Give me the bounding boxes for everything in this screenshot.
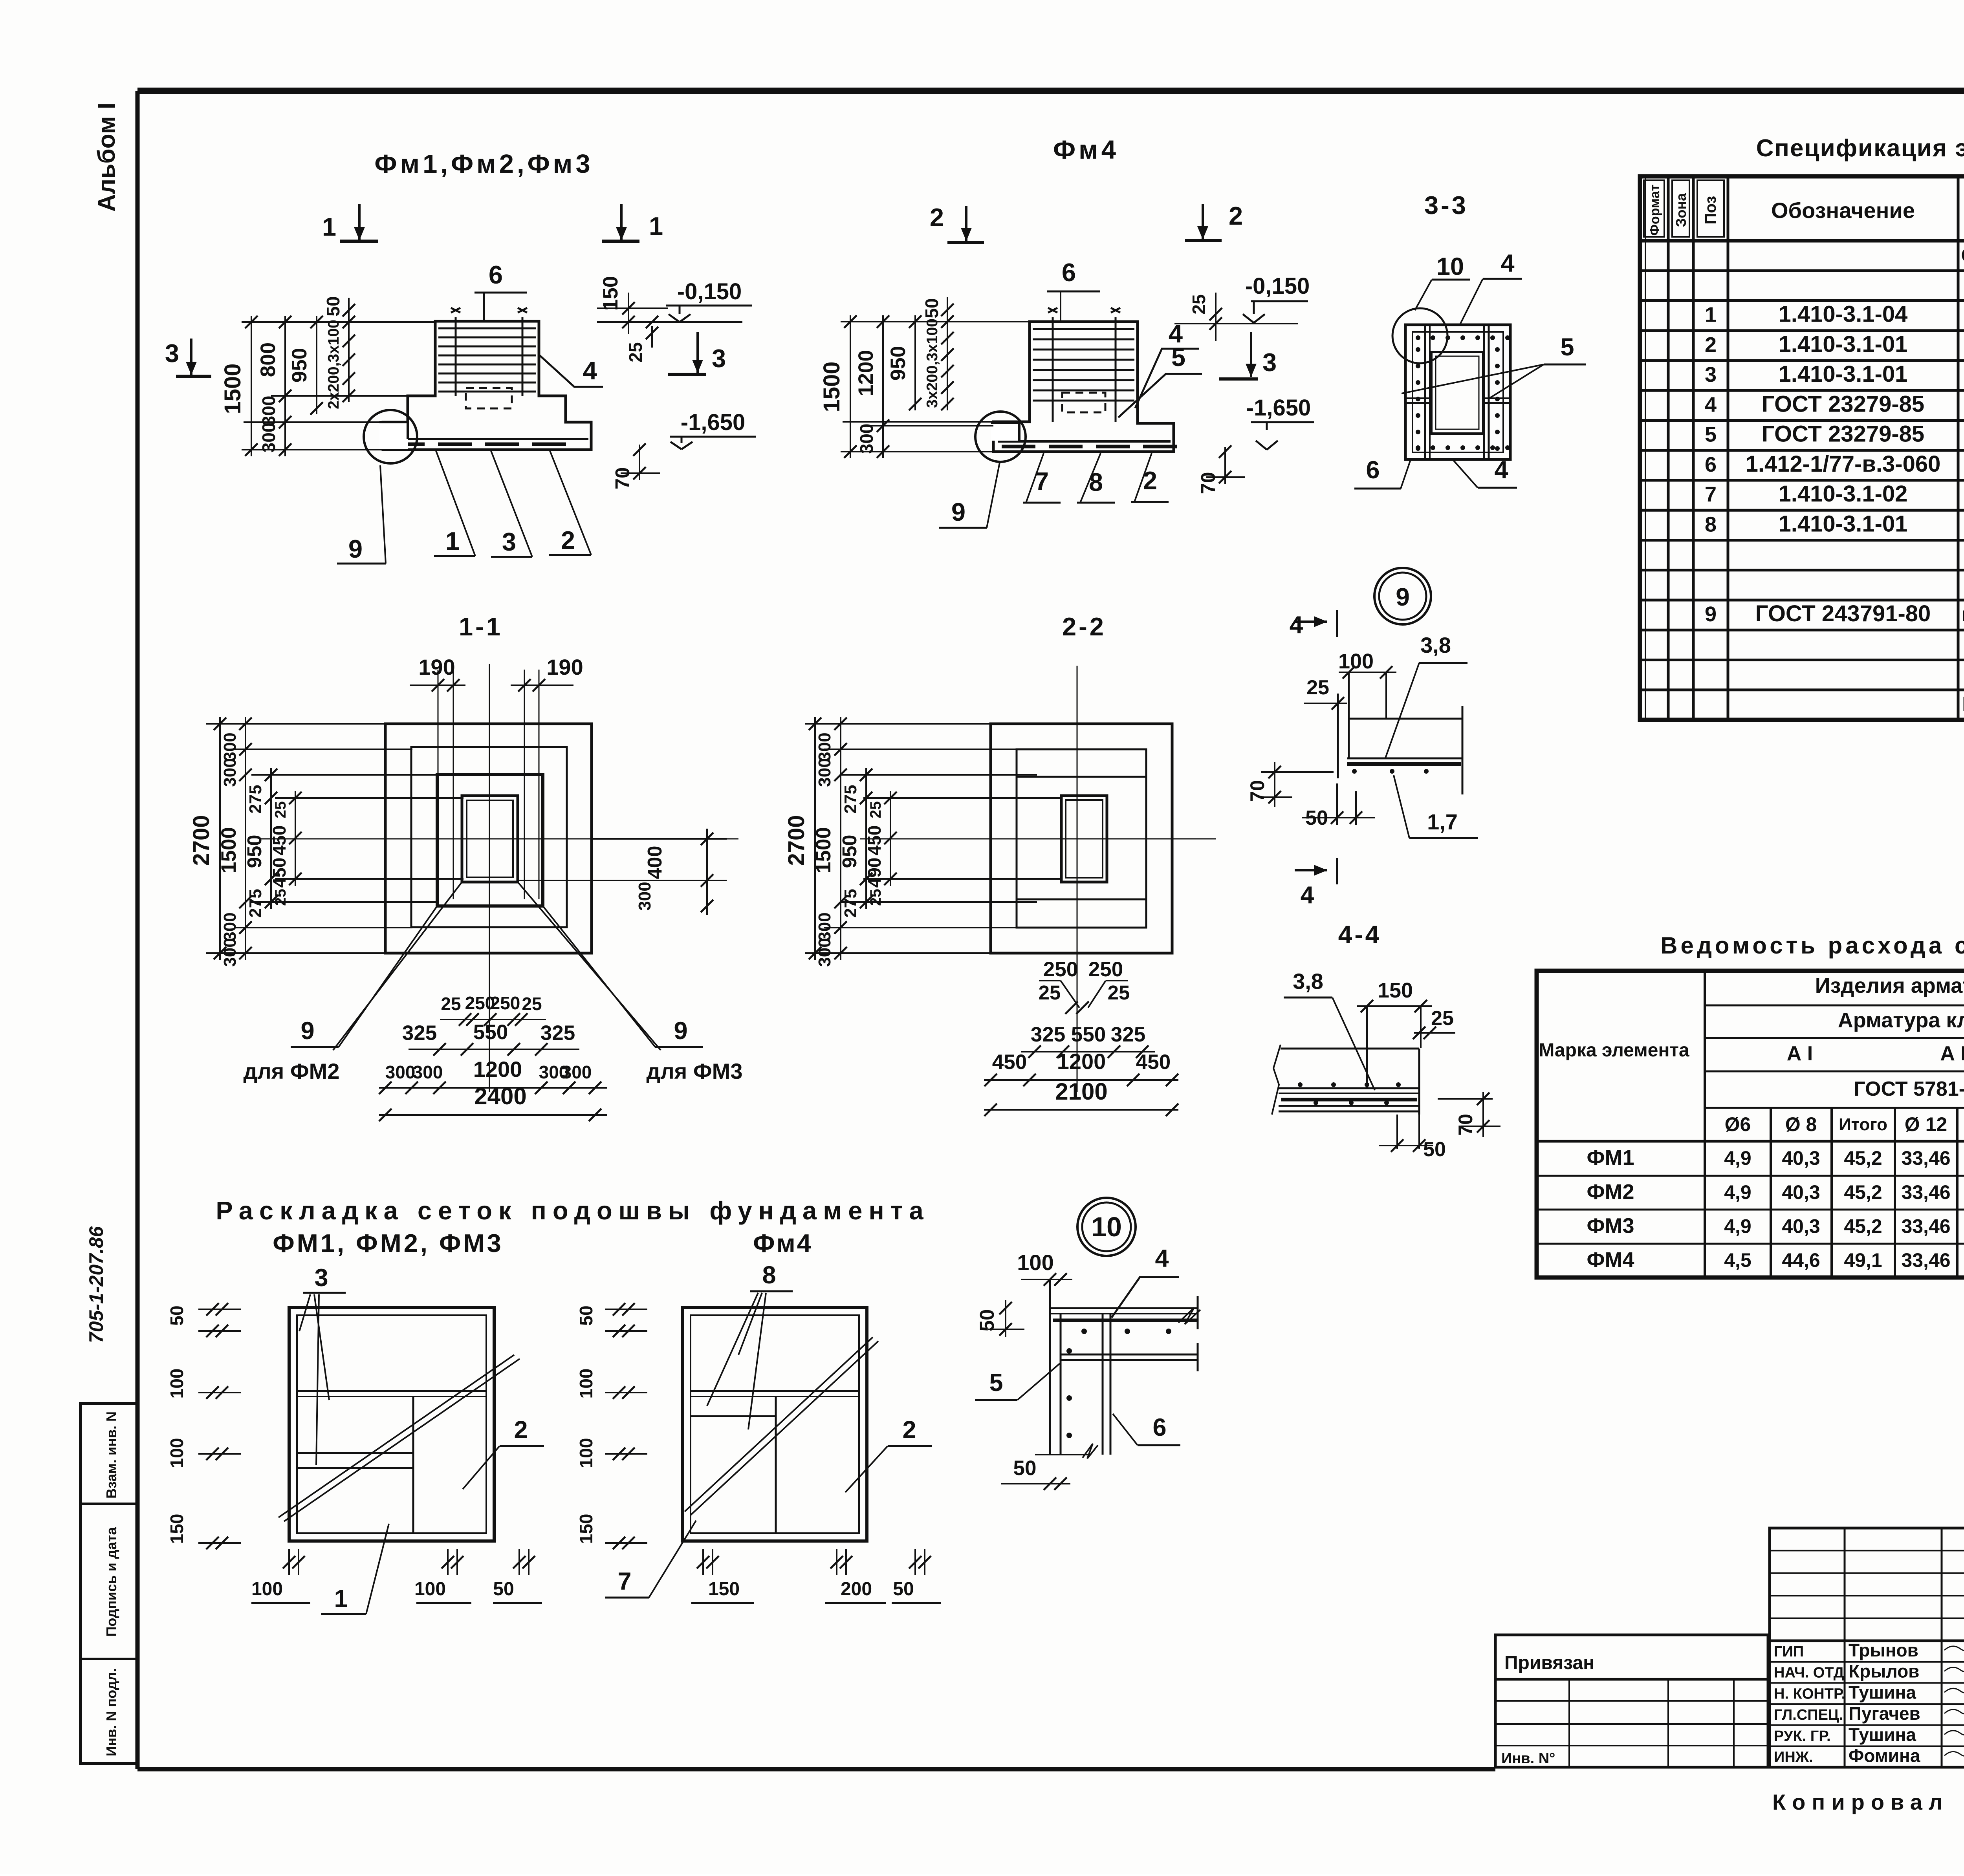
svg-text:Бетон класса В15: Бетон класса В15 [1962,692,1964,716]
svg-text:50: 50 [1013,1457,1037,1480]
svg-text:ФМ2: ФМ2 [1587,1180,1634,1204]
svg-text:50: 50 [922,298,942,318]
svg-text:Итого: Итого [1839,1115,1887,1134]
svg-text:-1,650: -1,650 [681,410,745,435]
svg-text:450: 450 [864,825,885,856]
svg-text:1500: 1500 [812,827,835,873]
svg-text:ГОСТ 5781- 82*: ГОСТ 5781- 82* [1854,1078,1964,1100]
svg-text:6: 6 [1705,453,1717,476]
svg-text:Формат: Формат [1647,185,1662,236]
svg-text:А I: А I [1787,1042,1813,1065]
svg-text:2100: 2100 [1055,1078,1107,1105]
svg-text:450: 450 [1136,1051,1171,1074]
svg-text:Привязан: Привязан [1504,1653,1594,1673]
svg-text:3x200,3x100: 3x200,3x100 [924,318,941,408]
svg-text:9: 9 [674,1017,687,1045]
svg-text:2x200,3x100: 2x200,3x100 [325,320,342,409]
svg-text:3: 3 [1705,363,1717,386]
svg-text:400: 400 [643,846,666,879]
svg-text:Фомина: Фомина [1849,1746,1920,1766]
svg-text:Взам. инв. N: Взам. инв. N [103,1411,119,1499]
svg-text:для ФМ3: для ФМ3 [647,1059,743,1084]
svg-text:2700: 2700 [784,815,809,866]
svg-text:Копировал: Копировал [1772,1790,1949,1814]
svg-text:25: 25 [867,801,884,818]
svg-text:300: 300 [258,423,279,453]
svg-text:НАЧ. ОТД: НАЧ. ОТД [1774,1665,1844,1681]
svg-text:Ведомость расхода стали на: Ведомость расхода стали на элемент, кг [1660,932,1964,959]
svg-text:300: 300 [220,938,240,966]
svg-text:ГОСТ 243791-80: ГОСТ 243791-80 [1755,601,1931,626]
svg-text:2: 2 [930,203,944,232]
svg-text:40,3: 40,3 [1782,1181,1820,1203]
svg-text:1: 1 [445,527,460,555]
svg-text:275: 275 [246,785,265,813]
svg-text:325: 325 [1111,1023,1145,1046]
svg-text:45,2: 45,2 [1844,1181,1882,1203]
svg-text:Инв. N°: Инв. N° [1501,1750,1555,1767]
svg-text:ИНЖ.: ИНЖ. [1774,1749,1813,1766]
svg-text:275: 275 [246,889,265,917]
svg-text:Тушина: Тушина [1849,1682,1916,1702]
svg-text:для ФМ2: для ФМ2 [244,1059,340,1084]
svg-text:1200: 1200 [1057,1049,1106,1074]
svg-text:3: 3 [165,339,179,368]
svg-text:1: 1 [1705,303,1717,327]
svg-text:Фм1,Фм2,Фм3: Фм1,Фм2,Фм3 [374,149,593,179]
svg-text:950: 950 [887,346,910,381]
svg-text:Инв. N подл.: Инв. N подл. [103,1668,119,1757]
svg-text:45,2: 45,2 [1844,1147,1882,1169]
svg-text:2: 2 [514,1416,528,1444]
svg-text:1-1: 1-1 [459,612,503,641]
svg-text:250: 250 [490,993,520,1013]
svg-text:6: 6 [489,260,503,289]
svg-text:4-4: 4-4 [1338,921,1382,949]
svg-text:2700: 2700 [189,815,214,866]
svg-text:Ø 12: Ø 12 [1905,1113,1947,1135]
svg-text:3,8: 3,8 [1293,969,1323,994]
svg-text:3,8: 3,8 [1420,633,1451,657]
svg-text:Трынов: Трынов [1849,1640,1918,1660]
svg-text:1.410-3.1-01: 1.410-3.1-01 [1779,511,1908,536]
svg-text:100: 100 [251,1579,283,1600]
svg-text:100: 100 [1338,650,1374,673]
svg-text:300: 300 [815,732,834,761]
svg-text:200: 200 [841,1579,872,1600]
svg-text:5: 5 [1560,333,1574,361]
svg-text:25: 25 [1189,294,1209,314]
svg-text:300: 300 [258,396,279,426]
svg-text:3: 3 [712,344,726,373]
svg-text:275: 275 [841,889,860,917]
svg-text:9: 9 [1705,602,1717,626]
svg-text:4,9: 4,9 [1724,1181,1751,1203]
svg-text:Болт 1.1 М24x500 ВСТ3 кп2: Болт 1.1 М24x500 ВСТ3 кп2 [1962,608,1964,625]
svg-text:Поз: Поз [1702,196,1719,225]
svg-text:1,7: 1,7 [1427,809,1458,834]
svg-text:10: 10 [1091,1212,1122,1242]
svg-text:4: 4 [583,356,597,385]
svg-text:300: 300 [220,732,240,761]
svg-text:Крылов: Крылов [1849,1661,1919,1682]
svg-text:70: 70 [1246,780,1268,802]
svg-text:ГОСТ 23279-85: ГОСТ 23279-85 [1762,421,1924,447]
svg-text:Раскладка сеток подошвы фун: Раскладка сеток подошвы фундамента [216,1196,929,1225]
svg-text:50: 50 [493,1579,514,1600]
svg-text:8: 8 [1705,512,1717,536]
svg-text:150: 150 [708,1579,740,1600]
svg-text:7: 7 [1705,483,1717,506]
svg-text:Спецификация элементов монол: Спецификация элементов монолитной констр… [1756,135,1964,162]
svg-text:Н. КОНТР.: Н. КОНТР. [1774,1686,1845,1702]
svg-text:ГЛ.СПЕЦ.: ГЛ.СПЕЦ. [1774,1707,1843,1723]
svg-text:2: 2 [1229,201,1243,230]
svg-text:40,3: 40,3 [1782,1215,1820,1237]
svg-text:ФМ1, ФМ2, ФМ3: ФМ1, ФМ2, ФМ3 [273,1229,504,1257]
svg-text:50: 50 [1423,1138,1446,1161]
svg-text:3-3: 3-3 [1424,191,1468,220]
svg-text:150: 150 [576,1514,596,1544]
svg-text:4: 4 [1494,456,1508,484]
svg-text:Обозначение: Обозначение [1771,198,1915,223]
svg-text:9: 9 [348,534,363,563]
svg-text:2-2: 2-2 [1062,612,1106,641]
svg-text:300: 300 [815,758,834,787]
svg-text:9: 9 [951,498,966,526]
svg-text:5: 5 [1705,423,1717,447]
svg-text:275: 275 [841,785,860,813]
svg-text:Ø6: Ø6 [1725,1113,1751,1135]
svg-text:А П: А П [1940,1042,1964,1065]
svg-text:2: 2 [1705,333,1717,357]
svg-text:-0,150: -0,150 [1245,273,1310,299]
svg-text:4: 4 [1705,393,1717,416]
svg-text:70: 70 [611,467,634,490]
svg-text:100: 100 [167,1369,187,1399]
svg-text:150: 150 [1378,979,1413,1002]
svg-text:550: 550 [473,1021,508,1044]
svg-text:Тушина: Тушина [1849,1724,1916,1745]
svg-text:8: 8 [762,1261,776,1289]
svg-text:Марка элемента: Марка элемента [1539,1040,1689,1061]
svg-text:4: 4 [1500,250,1514,277]
svg-text:2400: 2400 [474,1083,526,1109]
svg-text:300: 300 [413,1062,443,1082]
svg-text:33,46: 33,46 [1901,1181,1950,1203]
svg-text:1500: 1500 [819,361,845,412]
svg-text:25: 25 [1108,981,1130,1004]
svg-text:150: 150 [167,1514,187,1544]
svg-text:25: 25 [1431,1007,1454,1030]
svg-text:45,2: 45,2 [1844,1215,1882,1237]
svg-text:450: 450 [269,825,289,856]
svg-text:Сборочные единицы: Сборочные единицы [1961,244,1964,266]
svg-text:950: 950 [243,835,266,868]
svg-text:Арматура класса: Арматура класса [1838,1008,1964,1032]
svg-text:100: 100 [576,1369,596,1399]
svg-text:3: 3 [1262,348,1277,377]
svg-text:5: 5 [989,1369,1003,1396]
svg-text:1: 1 [322,212,336,241]
svg-text:4: 4 [1155,1245,1169,1272]
svg-text:50: 50 [323,296,343,316]
svg-text:25: 25 [272,889,289,906]
svg-text:1200: 1200 [854,350,878,396]
svg-text:1200: 1200 [473,1057,522,1082]
svg-text:50: 50 [576,1305,596,1325]
svg-text:300: 300 [562,1062,592,1082]
svg-text:Альбом I: Альбом I [93,102,120,212]
svg-text:44,6: 44,6 [1782,1249,1820,1271]
svg-text:1.412-1/77-в.3-060: 1.412-1/77-в.3-060 [1746,451,1941,477]
svg-text:ФМ1: ФМ1 [1587,1146,1634,1170]
svg-text:325: 325 [540,1021,575,1045]
svg-text:25: 25 [625,342,646,362]
svg-text:ФМ4: ФМ4 [1587,1248,1634,1272]
svg-text:ГИП: ГИП [1774,1644,1804,1660]
svg-text:6: 6 [1062,258,1076,287]
svg-text:25: 25 [522,994,542,1014]
svg-text:190: 190 [546,655,583,679]
svg-text:1: 1 [334,1585,348,1612]
svg-text:450: 450 [269,858,289,888]
svg-text:70: 70 [1455,1114,1477,1136]
svg-text:190: 190 [418,655,455,679]
svg-text:1.410-3.1-04: 1.410-3.1-04 [1779,302,1908,327]
svg-text:300: 300 [220,912,240,941]
svg-text:4,5: 4,5 [1724,1249,1751,1271]
svg-text:25: 25 [1306,676,1329,699]
svg-text:3: 3 [502,527,516,556]
svg-text:300: 300 [635,882,654,910]
svg-text:150: 150 [599,276,622,311]
svg-text:1.410-3.1-01: 1.410-3.1-01 [1779,361,1908,387]
svg-text:1: 1 [649,212,663,240]
svg-text:6: 6 [1152,1414,1166,1441]
svg-text:1.410-3.1-02: 1.410-3.1-02 [1779,481,1908,507]
svg-text:300: 300 [220,758,240,787]
svg-text:1.410-3.1-01: 1.410-3.1-01 [1779,331,1908,357]
svg-text:-0,150: -0,150 [677,279,742,304]
svg-text:4: 4 [1290,611,1303,639]
svg-text:3: 3 [314,1264,328,1292]
svg-text:50: 50 [976,1309,998,1332]
svg-text:Зона: Зона [1673,193,1689,227]
svg-text:9: 9 [1396,583,1410,611]
svg-text:25: 25 [272,801,289,818]
svg-text:450: 450 [992,1051,1027,1074]
svg-text:300: 300 [385,1062,416,1082]
svg-text:1500: 1500 [217,827,240,873]
svg-text:800: 800 [256,342,280,377]
svg-text:6: 6 [1366,456,1380,484]
svg-text:25: 25 [441,994,461,1014]
svg-text:4: 4 [1301,882,1314,909]
svg-text:25: 25 [867,889,884,906]
svg-text:100: 100 [414,1579,446,1600]
svg-text:950: 950 [288,348,311,383]
svg-text:Подпись и дата: Подпись и дата [103,1527,119,1637]
svg-text:-1,650: -1,650 [1246,395,1311,421]
svg-text:300: 300 [856,424,877,454]
svg-text:4,9: 4,9 [1724,1147,1751,1169]
svg-text:9: 9 [300,1017,314,1045]
svg-text:250: 250 [1088,958,1123,981]
svg-text:250: 250 [1043,958,1078,981]
svg-text:ФМ3: ФМ3 [1587,1214,1634,1238]
svg-text:705-1-207.86: 705-1-207.86 [85,1226,107,1343]
svg-text:40,3: 40,3 [1782,1147,1820,1169]
svg-text:33,46: 33,46 [1901,1249,1950,1271]
svg-text:50: 50 [893,1579,914,1600]
svg-text:2: 2 [902,1416,916,1444]
svg-text:1500: 1500 [220,363,245,414]
svg-text:РУК. ГР.: РУК. ГР. [1774,1728,1831,1744]
svg-text:4,9: 4,9 [1724,1215,1751,1237]
svg-text:300: 300 [815,938,834,966]
svg-text:950: 950 [838,835,861,868]
svg-text:8: 8 [1089,468,1103,496]
svg-text:550: 550 [1071,1023,1106,1046]
svg-text:Ø 8: Ø 8 [1785,1113,1817,1135]
svg-text:70: 70 [1197,472,1219,494]
svg-text:Фм4: Фм4 [1053,135,1119,165]
svg-text:7: 7 [617,1568,631,1595]
svg-text:2: 2 [561,526,575,555]
svg-text:50: 50 [167,1305,187,1325]
svg-text:33,46: 33,46 [1901,1215,1950,1237]
svg-text:100: 100 [1017,1250,1053,1275]
svg-text:Пугачев: Пугачев [1849,1703,1920,1724]
svg-text:5: 5 [1171,343,1185,372]
svg-text:25: 25 [1039,981,1061,1004]
svg-text:325: 325 [1031,1023,1065,1046]
svg-text:100: 100 [576,1438,596,1468]
svg-text:300: 300 [815,912,834,941]
svg-text:490: 490 [864,858,885,888]
svg-text:100: 100 [167,1438,187,1468]
svg-text:Фм4: Фм4 [753,1229,813,1257]
svg-text:Изделия арматурные: Изделия арматурные [1815,974,1964,997]
svg-text:ГОСТ 23279-85: ГОСТ 23279-85 [1762,391,1924,417]
svg-text:49,1: 49,1 [1844,1249,1882,1271]
svg-text:325: 325 [402,1021,437,1045]
svg-text:10: 10 [1436,253,1464,280]
svg-text:33,46: 33,46 [1901,1147,1950,1169]
